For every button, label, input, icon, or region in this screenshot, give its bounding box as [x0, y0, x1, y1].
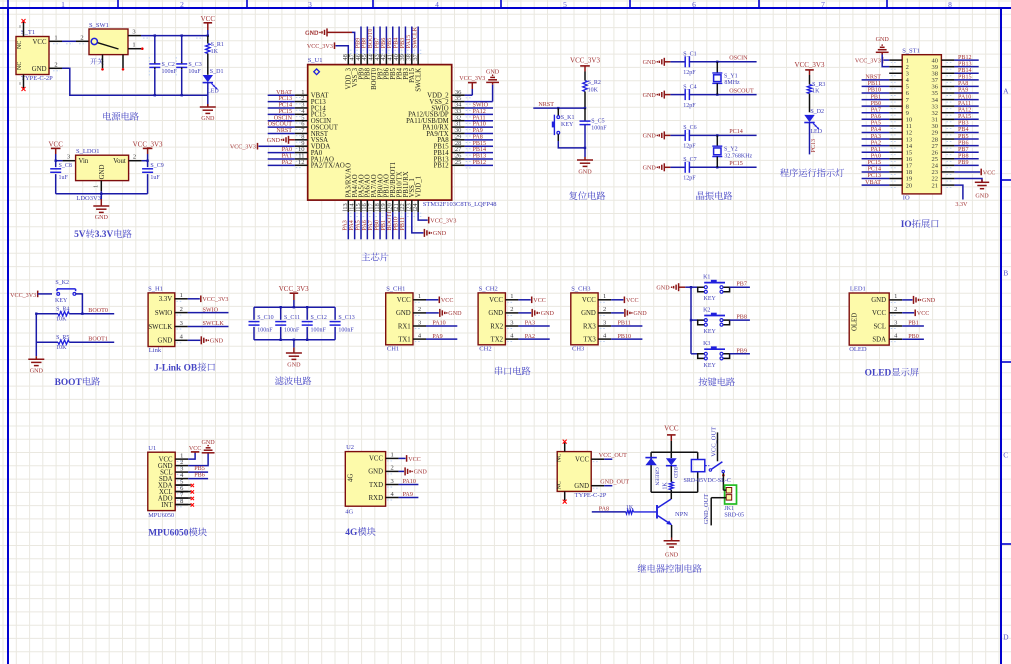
svg-text:S_H1: S_H1	[148, 286, 163, 293]
svg-text:PB13: PB13	[958, 61, 972, 67]
svg-text:PA12: PA12	[473, 109, 486, 115]
svg-text:S_C2: S_C2	[162, 62, 175, 68]
svg-text:PA4: PA4	[349, 220, 355, 230]
svg-text:S_U1: S_U1	[308, 57, 323, 64]
svg-text:B: B	[1003, 269, 1008, 278]
svg-text:NRST: NRST	[276, 128, 292, 134]
svg-text:1: 1	[54, 34, 57, 41]
svg-text:A: A	[1003, 87, 1009, 96]
svg-text:S_LDO1: S_LDO1	[76, 148, 99, 155]
svg-text:VCC: VCC	[575, 457, 589, 464]
svg-text:2: 2	[180, 306, 183, 313]
svg-text:100nF: 100nF	[257, 328, 273, 334]
svg-text:PC14: PC14	[867, 167, 881, 173]
svg-text:PA9: PA9	[958, 88, 968, 94]
svg-text:1: 1	[894, 293, 897, 300]
svg-text:K1: K1	[703, 275, 710, 281]
svg-text:GND: GND	[581, 310, 596, 317]
svg-text:GND: GND	[643, 60, 657, 66]
svg-text:PA12: PA12	[958, 107, 971, 113]
svg-text:PB6: PB6	[958, 140, 969, 146]
svg-text:GND: GND	[287, 362, 301, 368]
svg-text:PB5: PB5	[958, 134, 969, 140]
svg-text:GND: GND	[201, 440, 215, 446]
svg-text:4G: 4G	[345, 528, 358, 538]
svg-text:GND: GND	[975, 194, 989, 200]
svg-text:3: 3	[67, 154, 70, 161]
svg-text:GND: GND	[210, 339, 224, 345]
svg-text:2: 2	[603, 306, 606, 313]
svg-text:100nF: 100nF	[284, 328, 300, 334]
svg-text:GND: GND	[643, 134, 657, 140]
svg-text:VCC_3V3: VCC_3V3	[10, 293, 36, 299]
svg-text:5: 5	[563, 0, 567, 9]
svg-text:TX3: TX3	[583, 336, 596, 343]
svg-text:PA2: PA2	[871, 140, 881, 146]
svg-text:GND: GND	[305, 31, 319, 37]
svg-text:PB5: PB5	[194, 466, 205, 472]
svg-text:10K: 10K	[56, 317, 67, 323]
svg-text:NRST: NRST	[865, 75, 881, 81]
svg-text:OSCOUT: OSCOUT	[268, 122, 293, 128]
svg-text:1K: 1K	[211, 49, 219, 55]
svg-text:PB11: PB11	[400, 217, 406, 230]
svg-text:PC13: PC13	[278, 96, 292, 102]
svg-text:GND: GND	[541, 311, 555, 317]
svg-text:S_C12: S_C12	[311, 315, 327, 321]
svg-text:GND: GND	[99, 165, 106, 180]
svg-text:PA9: PA9	[403, 492, 413, 498]
svg-text:SCL: SCL	[874, 323, 886, 330]
svg-text:1: 1	[510, 293, 513, 300]
svg-text:BOOT0: BOOT0	[88, 308, 108, 314]
svg-text:K3: K3	[703, 341, 710, 347]
svg-text:PB12: PB12	[473, 160, 487, 166]
svg-text:PA2/TX/AO: PA2/TX/AO	[311, 163, 345, 170]
svg-text:100nF: 100nF	[162, 69, 178, 75]
svg-text:D: D	[1003, 633, 1009, 642]
svg-text:PB9: PB9	[355, 38, 361, 49]
svg-text:PB6: PB6	[194, 473, 205, 479]
svg-text:PB9: PB9	[736, 348, 747, 354]
svg-text:PB9: PB9	[958, 160, 969, 166]
svg-text:PA15: PA15	[406, 35, 412, 48]
svg-text:S_Y2: S_Y2	[724, 147, 738, 153]
svg-text:S_C9: S_C9	[150, 163, 163, 169]
svg-text:Vout: Vout	[113, 158, 126, 165]
svg-text:PA1: PA1	[282, 154, 292, 160]
svg-text:1: 1	[180, 292, 183, 299]
svg-text:VDD_1: VDD_1	[415, 176, 422, 198]
svg-text:GND_OUT: GND_OUT	[600, 480, 629, 486]
svg-text:PC15: PC15	[867, 160, 881, 166]
svg-text:OLED: OLED	[852, 313, 859, 331]
svg-text:PB0: PB0	[870, 101, 881, 107]
svg-text:PB14: PB14	[473, 147, 487, 153]
svg-text:PB10: PB10	[394, 217, 400, 231]
svg-text:S_CH1: S_CH1	[386, 286, 405, 293]
svg-text:7: 7	[821, 0, 825, 9]
svg-text:PA8: PA8	[473, 134, 483, 140]
svg-text:MPU6050: MPU6050	[148, 529, 188, 539]
svg-text:IO: IO	[901, 220, 912, 230]
svg-text:3: 3	[603, 319, 606, 326]
svg-text:100nF: 100nF	[311, 328, 327, 334]
svg-text:PB1: PB1	[870, 94, 881, 100]
svg-text:100nF: 100nF	[338, 328, 354, 334]
svg-text:S_C5: S_C5	[591, 118, 604, 124]
svg-text:VCC_3V3: VCC_3V3	[133, 140, 163, 148]
svg-text:VCC: VCC	[33, 39, 47, 46]
svg-text:VCC: VCC	[201, 15, 216, 23]
svg-text:VCC_OUT: VCC_OUT	[599, 453, 627, 459]
svg-text:PB1: PB1	[908, 321, 919, 327]
svg-text:S_CH3: S_CH3	[571, 286, 590, 293]
svg-text:U2: U2	[346, 444, 354, 451]
svg-text:10uF: 10uF	[188, 69, 201, 75]
svg-text:VCC: VCC	[626, 298, 639, 304]
svg-text:S_C8: S_C8	[59, 163, 72, 169]
svg-text:GND: GND	[922, 298, 936, 304]
svg-text:PB6: PB6	[381, 38, 387, 49]
svg-text:GND: GND	[368, 469, 383, 476]
svg-text:PA2: PA2	[525, 334, 535, 340]
svg-text:VCC: VCC	[872, 310, 886, 317]
svg-text:VCC: VCC	[664, 425, 679, 433]
svg-text:GND: GND	[201, 116, 215, 122]
svg-text:25: 25	[455, 159, 462, 166]
svg-text:2: 2	[180, 0, 184, 9]
svg-text:S_C10: S_C10	[257, 315, 273, 321]
svg-text:GND: GND	[95, 215, 109, 221]
svg-text:PA3: PA3	[343, 220, 349, 230]
svg-text:GND: GND	[448, 311, 462, 317]
svg-text:PB10: PB10	[867, 88, 881, 94]
svg-text:8: 8	[948, 0, 952, 9]
svg-text:KEY: KEY	[561, 122, 574, 128]
svg-text:MPU6050: MPU6050	[148, 512, 174, 519]
svg-text:GND: GND	[643, 166, 657, 172]
svg-text:S_C3: S_C3	[188, 62, 201, 68]
svg-text:PB15: PB15	[473, 141, 487, 147]
svg-text:1: 1	[132, 42, 135, 49]
svg-text:3: 3	[180, 320, 183, 327]
svg-text:PC14: PC14	[729, 129, 743, 135]
svg-text:VCC: VCC	[441, 298, 454, 304]
svg-text:RX3: RX3	[583, 323, 596, 330]
svg-text:3.3V: 3.3V	[159, 296, 172, 303]
svg-text:2: 2	[54, 61, 57, 68]
svg-text:GND: GND	[396, 310, 411, 317]
svg-text:VCC: VCC	[533, 298, 546, 304]
svg-text:GND: GND	[267, 138, 281, 144]
svg-text:PB8: PB8	[958, 153, 969, 159]
svg-text:PB11: PB11	[868, 81, 881, 87]
svg-text:TX2: TX2	[491, 336, 504, 343]
svg-text:S_R4: S_R4	[56, 307, 69, 313]
svg-text:1: 1	[93, 185, 100, 188]
svg-text:VCC_3V3: VCC_3V3	[459, 76, 485, 82]
svg-text:K2: K2	[703, 307, 710, 313]
svg-text:NC: NC	[17, 41, 23, 49]
svg-text:KEY: KEY	[704, 329, 717, 335]
svg-text:BOOT0: BOOT0	[368, 29, 374, 49]
svg-text:PA5: PA5	[871, 121, 881, 127]
svg-text:PA9: PA9	[473, 128, 483, 134]
svg-text:PB12: PB12	[958, 55, 972, 61]
svg-text:BOOT: BOOT	[55, 378, 83, 388]
svg-text:VCC_3V3: VCC_3V3	[279, 285, 309, 293]
svg-text:20: 20	[906, 182, 913, 189]
svg-text:10K: 10K	[588, 87, 599, 93]
svg-text:PB3: PB3	[400, 38, 406, 49]
svg-text:GND: GND	[157, 338, 172, 345]
svg-text:PA8: PA8	[599, 506, 609, 512]
svg-text:SWIO: SWIO	[473, 103, 489, 109]
svg-text:S_Y1: S_Y1	[724, 73, 738, 79]
svg-text:1K: 1K	[626, 505, 634, 511]
svg-text:RX1: RX1	[398, 323, 411, 330]
svg-text:1K: 1K	[812, 88, 820, 94]
svg-text:100nF: 100nF	[591, 125, 607, 131]
svg-text:GND: GND	[665, 552, 679, 558]
svg-text:LED: LED	[207, 88, 219, 94]
svg-text:1uF: 1uF	[59, 175, 69, 181]
svg-text:2: 2	[510, 306, 513, 313]
svg-text:VCC_3V3: VCC_3V3	[570, 56, 600, 64]
svg-text:GND: GND	[488, 310, 503, 317]
svg-text:GND: GND	[433, 231, 447, 237]
svg-text:SDA: SDA	[872, 337, 886, 344]
svg-text:S_C1: S_C1	[683, 52, 696, 58]
svg-text:5V: 5V	[74, 230, 86, 240]
svg-text:4G: 4G	[345, 509, 353, 516]
svg-text:GREEN: GREEN	[654, 467, 660, 485]
svg-text:TX1: TX1	[398, 336, 410, 343]
svg-text:PA15: PA15	[958, 114, 971, 120]
svg-text:VCC: VCC	[408, 457, 421, 463]
svg-text:OSCIN: OSCIN	[729, 56, 748, 62]
svg-text:21: 21	[932, 182, 939, 189]
svg-text:SRD-05VDC-SL-C: SRD-05VDC-SL-C	[684, 478, 731, 484]
svg-text:VCC_3V3: VCC_3V3	[855, 59, 881, 65]
svg-text:GND: GND	[574, 483, 589, 490]
svg-text:PB10: PB10	[618, 334, 632, 340]
svg-text:3: 3	[510, 319, 513, 326]
svg-text:Vin: Vin	[79, 158, 89, 165]
svg-text:PA11: PA11	[958, 101, 971, 107]
svg-text:GND: GND	[30, 369, 44, 375]
svg-text:S_C11: S_C11	[284, 315, 300, 321]
svg-text:PB15: PB15	[958, 75, 972, 81]
svg-text:PB13: PB13	[473, 154, 487, 160]
svg-text:VCC_3V3: VCC_3V3	[202, 297, 228, 303]
svg-text:PA5: PA5	[355, 220, 361, 230]
svg-text:PA0: PA0	[871, 153, 881, 159]
svg-text:KEY: KEY	[55, 298, 68, 304]
svg-text:PB0: PB0	[374, 220, 380, 231]
svg-text:32.768KHz: 32.768KHz	[724, 153, 752, 159]
svg-text:PB7: PB7	[736, 282, 747, 288]
svg-text:PA8: PA8	[958, 81, 968, 87]
svg-text:GND: GND	[32, 66, 47, 73]
svg-text:PB7: PB7	[374, 38, 380, 49]
svg-text:12pF: 12pF	[683, 70, 696, 76]
svg-text:S_R1: S_R1	[211, 42, 224, 48]
svg-text:37: 37	[412, 53, 419, 60]
svg-text:4: 4	[435, 0, 439, 9]
svg-text:STM32F103C8T6_LQFP48: STM32F103C8T6_LQFP48	[423, 201, 497, 208]
svg-text:3: 3	[308, 0, 312, 9]
svg-text:S_CH2: S_CH2	[479, 286, 498, 293]
svg-text:10K: 10K	[56, 345, 67, 351]
svg-text:PC15: PC15	[729, 161, 743, 167]
svg-text:GND_OUT: GND_OUT	[703, 494, 710, 525]
svg-text:GND: GND	[414, 470, 428, 476]
svg-text:3: 3	[418, 319, 421, 326]
svg-text:VCC_3V3: VCC_3V3	[230, 145, 256, 151]
svg-text:PB12: PB12	[434, 163, 450, 170]
svg-text:1: 1	[390, 452, 393, 459]
svg-text:PA4: PA4	[871, 127, 881, 133]
svg-text:3: 3	[390, 478, 393, 485]
svg-text:S_C13: S_C13	[338, 315, 354, 321]
svg-text:VBAT: VBAT	[865, 180, 881, 186]
svg-text:C: C	[1003, 451, 1008, 460]
svg-text:S_C4: S_C4	[683, 84, 696, 90]
svg-text:SWCLK: SWCLK	[415, 68, 422, 92]
svg-text:NC: NC	[556, 454, 562, 462]
svg-text:U1: U1	[148, 445, 156, 452]
svg-text:24: 24	[412, 203, 419, 210]
svg-text:PA9: PA9	[432, 334, 442, 340]
svg-text:2: 2	[418, 306, 421, 313]
svg-text:GND: GND	[871, 297, 886, 304]
svg-text:S_K1: S_K1	[561, 115, 575, 121]
svg-text:1: 1	[418, 293, 421, 300]
svg-text:S_D2: S_D2	[810, 109, 824, 115]
svg-text:2: 2	[390, 465, 393, 472]
svg-text:SRD-05: SRD-05	[724, 512, 744, 518]
svg-text:S_R2: S_R2	[588, 80, 601, 86]
svg-text:INT: INT	[161, 502, 173, 509]
svg-text:VCC_OUT: VCC_OUT	[711, 427, 718, 457]
svg-text:S_D1: S_D1	[210, 69, 224, 75]
svg-text:CH3: CH3	[572, 345, 584, 352]
svg-text:PA1: PA1	[871, 147, 881, 153]
svg-text:PC14: PC14	[278, 103, 292, 109]
svg-text:PB11: PB11	[618, 321, 631, 327]
svg-text:KEY: KEY	[704, 363, 717, 369]
svg-text:VCC: VCC	[369, 456, 383, 463]
svg-text:VCC: VCC	[48, 140, 63, 148]
svg-text:PA10: PA10	[403, 479, 416, 485]
svg-text:3: 3	[132, 29, 135, 36]
svg-text:GND: GND	[486, 70, 500, 76]
svg-text:VCC_3V3: VCC_3V3	[430, 218, 456, 224]
svg-text:S_C6: S_C6	[683, 125, 696, 131]
svg-text:PA11: PA11	[473, 115, 486, 121]
svg-text:S_K2: S_K2	[55, 280, 69, 286]
svg-text:GND: GND	[656, 285, 670, 291]
svg-text:2: 2	[133, 154, 136, 161]
svg-text:NPN: NPN	[675, 511, 688, 518]
svg-text:OSCOUT: OSCOUT	[729, 88, 754, 94]
svg-text:VCC_3V3: VCC_3V3	[795, 61, 825, 69]
svg-text:S_SW1: S_SW1	[89, 22, 109, 29]
svg-text:SWCLK: SWCLK	[203, 321, 225, 327]
svg-text:1: 1	[603, 293, 606, 300]
svg-text:NC: NC	[556, 481, 562, 489]
svg-text:OLED: OLED	[865, 369, 892, 379]
svg-text:PB7: PB7	[958, 147, 969, 153]
svg-text:6: 6	[692, 0, 696, 9]
svg-text:PA6: PA6	[362, 220, 368, 230]
svg-text:S_ST1: S_ST1	[902, 47, 920, 54]
svg-text:PB5: PB5	[387, 38, 393, 49]
svg-text:TXD: TXD	[369, 482, 383, 489]
svg-text:PA10: PA10	[432, 321, 445, 327]
svg-text:GND: GND	[876, 37, 890, 43]
svg-text:PB0: PB0	[908, 334, 919, 340]
svg-text:8MHz: 8MHz	[724, 80, 740, 86]
svg-text:TYPE-C-2P: TYPE-C-2P	[21, 75, 53, 82]
svg-text:3.3V: 3.3V	[95, 230, 114, 240]
svg-text:KEY: KEY	[704, 296, 717, 302]
svg-text:12: 12	[298, 159, 305, 166]
svg-text:BOOT1: BOOT1	[387, 211, 393, 231]
svg-text:PB8: PB8	[736, 315, 747, 321]
svg-text:PB4: PB4	[394, 38, 400, 49]
svg-text:PB8: PB8	[362, 38, 368, 49]
svg-text:LDO3V3: LDO3V3	[76, 195, 101, 202]
svg-text:Link: Link	[149, 347, 162, 354]
svg-text:GND: GND	[633, 311, 647, 317]
svg-text:SWIO: SWIO	[203, 307, 219, 313]
svg-text:12pF: 12pF	[683, 176, 696, 182]
svg-text:PB14: PB14	[958, 68, 972, 74]
svg-text:LED: LED	[810, 129, 822, 135]
svg-text:S_R5: S_R5	[56, 335, 69, 341]
svg-text:2: 2	[894, 306, 897, 313]
svg-text:J-Link OB: J-Link OB	[154, 364, 197, 374]
svg-text:JK1: JK1	[724, 506, 734, 512]
svg-text:12pF: 12pF	[683, 144, 696, 150]
svg-text:BOOT1: BOOT1	[88, 336, 108, 342]
svg-text:SWCLK: SWCLK	[148, 324, 172, 331]
svg-text:CH2: CH2	[479, 345, 491, 352]
svg-text:TYPE-C-2P: TYPE-C-2P	[575, 492, 607, 499]
svg-text:VCC: VCC	[983, 170, 996, 176]
svg-text:PC13: PC13	[867, 173, 881, 179]
svg-text:VCC_3V3: VCC_3V3	[307, 44, 333, 50]
svg-text:NRST: NRST	[538, 102, 554, 108]
svg-text:PA2: PA2	[282, 160, 292, 166]
svg-text:PA10: PA10	[473, 122, 486, 128]
svg-text:RXD: RXD	[369, 495, 383, 502]
svg-text:3: 3	[894, 319, 897, 326]
svg-text:NC: NC	[17, 62, 23, 70]
svg-text:SWIO: SWIO	[155, 310, 172, 317]
svg-text:3.3V: 3.3V	[955, 202, 968, 208]
svg-text:IO: IO	[903, 195, 910, 202]
svg-text:OSCIN: OSCIN	[274, 115, 293, 121]
svg-text:12pF: 12pF	[683, 103, 696, 109]
svg-text:VCC: VCC	[582, 297, 596, 304]
svg-text:PA0: PA0	[282, 147, 292, 153]
svg-text:CH1: CH1	[387, 345, 399, 352]
svg-text:1uF: 1uF	[150, 175, 160, 181]
